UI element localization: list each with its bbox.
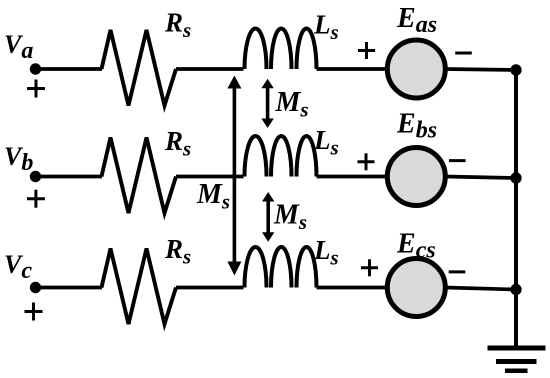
svg-text:Rs: Rs (164, 126, 191, 161)
wire resistor to inductor phase c (176, 286, 244, 290)
svg-text:Rs: Rs (164, 234, 191, 269)
mutual inductance arrow Ms (phase a-b) (261, 79, 273, 128)
junction dot phase b on bus (510, 172, 521, 183)
Vb terminal + polarity (27, 190, 45, 208)
source Ebs + sign (358, 153, 375, 170)
voltage source Ebs (387, 148, 445, 206)
source Eas + sign (358, 42, 375, 59)
svg-text:Eas: Eas (396, 3, 437, 38)
junction dot phase a on bus (510, 64, 521, 75)
svg-text:Ls: Ls (313, 235, 339, 270)
wire source Ebs to bus (445, 177, 516, 179)
source Ecs - sign (449, 270, 466, 273)
svg-text:Ms: Ms (273, 200, 307, 235)
svg-text:Rs: Rs (164, 7, 191, 42)
mutual inductance arrow Ms (phase a-c, long) (227, 76, 241, 276)
node Va terminal dot (30, 63, 41, 74)
wire resistor to inductor phase a (176, 67, 244, 71)
wire Vb to resistor (36, 175, 103, 179)
resistor Rs phase b (102, 138, 177, 214)
source Eas - sign (455, 52, 472, 55)
svg-text:Ms: Ms (196, 179, 230, 214)
svg-text:Ls: Ls (313, 9, 339, 44)
resistor Rs phase a (102, 30, 177, 106)
junction dot phase c on bus (510, 284, 521, 295)
wire Vc to resistor (36, 286, 103, 290)
bus wire (right vertical) (514, 69, 518, 348)
svg-text:Ms: Ms (275, 87, 309, 122)
Vc terminal + polarity (25, 303, 43, 321)
inductor Ls phase c (245, 247, 317, 288)
svg-text:Va: Va (4, 30, 33, 64)
voltage source Ecs (387, 259, 445, 317)
node Vc terminal dot (30, 282, 41, 293)
wire inductor to source Eas (317, 67, 388, 71)
source Ebs - sign (449, 159, 466, 162)
wire inductor to source Ebs (317, 175, 388, 179)
voltage source Eas (387, 40, 445, 98)
source Ecs + sign (361, 259, 378, 276)
inductor Ls phase b (245, 136, 317, 177)
wire source Eas to bus (445, 69, 516, 70)
svg-text:Ebs: Ebs (396, 108, 437, 143)
svg-text:Vb: Vb (4, 142, 33, 176)
inductor Ls phase a (245, 29, 317, 70)
svg-text:Vc: Vc (4, 250, 32, 284)
ground (488, 348, 546, 371)
node Vb terminal dot (30, 171, 41, 182)
svg-text:Ls: Ls (313, 125, 339, 160)
Va terminal + polarity (27, 80, 45, 98)
wire source Ecs to bus (445, 288, 516, 290)
wire Va to resistor (36, 67, 103, 71)
mutual inductance arrow Ms (phase b-c) (262, 192, 274, 242)
wire resistor to inductor phase b (176, 175, 244, 179)
svg-text:Ecs: Ecs (396, 229, 436, 264)
wire inductor to source Ecs (317, 286, 388, 290)
resistor Rs phase c (102, 249, 177, 325)
